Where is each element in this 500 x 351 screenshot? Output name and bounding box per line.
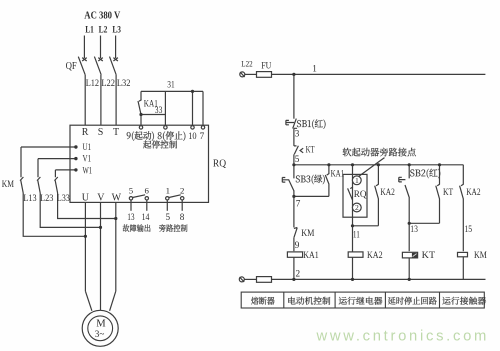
text 运行接触器 (442, 297, 486, 305)
svg-text:L32: L32 (117, 79, 131, 89)
soft starter RQ box (70, 125, 209, 202)
wire U diagonal to motor (85, 291, 92, 311)
svg-text:KA2: KA2 (380, 187, 395, 197)
fuse FU top (245, 73, 257, 75)
svg-text:FU: FU (261, 62, 271, 72)
svg-text:S: S (98, 127, 104, 138)
terminal 13 stub (130, 200, 132, 211)
svg-text:RQ: RQ (354, 189, 367, 199)
pushbutton SB2 (red) (399, 165, 410, 198)
contact KT NC (delay break) (294, 146, 303, 155)
svg-text:V: V (97, 192, 105, 203)
text 电动机控制 (288, 297, 330, 305)
svg-text:L33: L33 (57, 193, 71, 203)
text 软起动器旁路接点 (343, 148, 416, 157)
svg-text:L23: L23 (40, 193, 54, 203)
wire node 7 latch run (294, 195, 329, 197)
svg-text:11: 11 (353, 229, 360, 239)
wire RQ bypass branch drop (352, 165, 354, 252)
wire L32 drop to T (115, 75, 117, 125)
wire KM pole2 down (40, 193, 100, 227)
svg-text:L3: L3 (112, 25, 121, 35)
svg-text:KA1: KA1 (303, 250, 319, 260)
breaker QF pole 3 cross (113, 58, 118, 61)
coil KT (delay) (402, 252, 417, 258)
svg-text:5: 5 (295, 154, 300, 164)
wire bottom rail node 2 (272, 278, 486, 280)
svg-text:KT: KT (443, 187, 454, 197)
svg-text:3: 3 (295, 129, 300, 139)
wire KM coil to rail (462, 257, 464, 280)
wire node 7 segment (293, 191, 295, 228)
wire L12 drop to R (84, 75, 86, 125)
contact KT NO (436, 165, 440, 224)
text 起停控制 (143, 140, 177, 148)
terminal L22 circle (240, 72, 245, 77)
svg-text:14: 14 (142, 212, 150, 222)
motor M inner circle (88, 316, 113, 341)
wire node 5 segment (293, 154, 295, 165)
svg-text:www.cntronics.com: www.cntronics.com (316, 329, 490, 345)
text 熔断器 (251, 297, 275, 305)
pushbutton SB1 (red stop) (286, 119, 297, 129)
wire W output (115, 202, 117, 291)
svg-text:KT: KT (306, 145, 315, 155)
breaker QF pole 3 blade (110, 57, 117, 75)
svg-text:L2: L2 (99, 25, 108, 35)
svg-text:T: T (113, 127, 119, 138)
wire KM pole3 down (58, 193, 116, 219)
soft starter bypass contact box (343, 174, 367, 217)
wire L3 phase drop (115, 36, 117, 59)
breaker QF pole 1 blade (78, 57, 85, 75)
breaker QF pole 1 cross (82, 58, 87, 61)
breaker QF pole 2 cross (98, 58, 103, 61)
pushbutton SB3 (green start) (282, 165, 294, 191)
wire KT coil to rail (408, 258, 410, 280)
wire terminal 7 riser (202, 91, 204, 125)
legend table (241, 292, 484, 308)
wire SB2 to node 13 (408, 198, 410, 251)
svg-text:15: 15 (465, 224, 473, 234)
svg-text:KT: KT (422, 250, 436, 260)
svg-text:L1: L1 (85, 25, 94, 35)
bypass terminal 2 circle (352, 203, 361, 212)
svg-text:2: 2 (296, 268, 301, 278)
terminal 14 stub (146, 200, 148, 211)
svg-text:U: U (82, 192, 90, 203)
svg-text:L22: L22 (241, 58, 252, 68)
contact bypass 5-8 (166, 197, 169, 200)
wire L2 phase drop (100, 36, 102, 59)
svg-text:1: 1 (166, 185, 170, 195)
contact KA1 (start latch) (138, 91, 142, 114)
svg-text:W: W (112, 192, 122, 203)
svg-text:9: 9 (295, 240, 300, 250)
wire node 13 tie (409, 222, 439, 224)
wire top rail node 1 (272, 73, 486, 75)
wire W1 lead (55, 169, 76, 171)
coil KA1 (287, 252, 302, 257)
svg-text:AC 380 V: AC 380 V (84, 11, 120, 22)
coil KM (458, 252, 468, 256)
contact KM pole3 (54, 170, 57, 193)
terminal 5 stub (166, 200, 168, 211)
contact fault output 13-14 (129, 197, 132, 200)
svg-text:13: 13 (410, 224, 418, 234)
svg-text:KM: KM (301, 228, 314, 238)
wire L1 phase drop (83, 36, 85, 59)
contact KA2 right (460, 165, 464, 251)
svg-text:5: 5 (166, 212, 171, 222)
svg-text:10: 10 (188, 131, 197, 141)
wire V output (100, 202, 102, 310)
svg-text:L22: L22 (101, 79, 115, 89)
fuse FU bottom (244, 278, 256, 280)
contact KM pole1 (20, 147, 23, 193)
wire KM pole1 down (23, 193, 85, 236)
text 9(起动) (127, 131, 154, 141)
wire L22 drop to S (100, 75, 102, 125)
svg-text:2: 2 (355, 203, 359, 212)
wire U1 lead (21, 146, 76, 148)
coil KA2 (348, 252, 363, 257)
breaker QF pole 2 blade (94, 57, 101, 75)
svg-text:W1: W1 (83, 166, 93, 176)
motor M outer circle (82, 310, 118, 346)
contact KM aux (294, 228, 297, 238)
svg-text:KA2: KA2 (367, 250, 383, 260)
svg-text:V1: V1 (83, 154, 92, 164)
wire node 11 tie (353, 225, 379, 227)
bypass contact (348, 187, 353, 200)
svg-text:33: 33 (155, 105, 163, 115)
svg-text:KM: KM (474, 250, 487, 260)
svg-text:7: 7 (200, 131, 205, 141)
text SB3(绿) (296, 175, 325, 185)
terminal 9 circle (139, 126, 142, 129)
svg-text:13: 13 (127, 212, 135, 222)
wire W diagonal to motor (110, 291, 116, 311)
wire main drop to SB1 (293, 74, 295, 118)
contact KA2 parallel (375, 165, 379, 226)
wire node 9 segment (293, 238, 295, 252)
svg-text:KM: KM (2, 180, 15, 190)
svg-text:6: 6 (145, 185, 150, 195)
text SB1(红) (297, 119, 326, 129)
contact KA1 latch branch (325, 165, 329, 197)
svg-text:5: 5 (129, 185, 134, 195)
svg-text:2: 2 (180, 185, 184, 195)
terminal 7 circle (201, 126, 204, 129)
contact KM pole2 (37, 159, 40, 193)
terminal 10 circle (191, 126, 194, 129)
wire node 3 segment (293, 128, 295, 146)
wire U output (84, 202, 86, 291)
text 运行继电器 (339, 297, 383, 305)
text 延时停止回路 (388, 297, 437, 305)
svg-text:U1: U1 (83, 142, 92, 152)
svg-text:31: 31 (167, 80, 174, 90)
svg-text:L12: L12 (86, 79, 100, 89)
wire node 5 rail (294, 164, 463, 166)
wire terminal 9 stub (140, 115, 142, 126)
svg-text:8: 8 (180, 212, 185, 222)
terminal 8 circle (164, 126, 167, 129)
wire V1 lead (38, 158, 76, 160)
text SB2(红) (410, 169, 440, 179)
svg-text:QF: QF (66, 61, 78, 72)
junction dots (191, 90, 194, 93)
wire node 31 top run (141, 90, 203, 92)
svg-text:L13: L13 (23, 193, 37, 203)
text 故障输出 (123, 224, 151, 232)
bypass terminal 1 circle (352, 176, 361, 185)
callout line (358, 158, 384, 177)
terminal 8 stub (181, 200, 183, 211)
terminal bottom circle (239, 277, 244, 282)
svg-text:R: R (82, 127, 89, 138)
text 旁路控制 (159, 224, 187, 232)
svg-text:3~: 3~ (95, 329, 105, 339)
svg-text:KA2: KA2 (466, 187, 481, 197)
svg-text:1: 1 (355, 176, 359, 185)
wire KA2 coil to rail (352, 257, 354, 279)
svg-text:1: 1 (312, 63, 317, 73)
wire KA1 coil to rail (293, 257, 295, 279)
wire node 33 run (141, 114, 165, 116)
svg-text:RQ: RQ (213, 159, 227, 170)
wire terminal 10 riser (192, 91, 194, 125)
wire terminal 8 riser (164, 91, 166, 125)
svg-text:7: 7 (296, 198, 301, 208)
text 8(停止) (158, 131, 186, 141)
